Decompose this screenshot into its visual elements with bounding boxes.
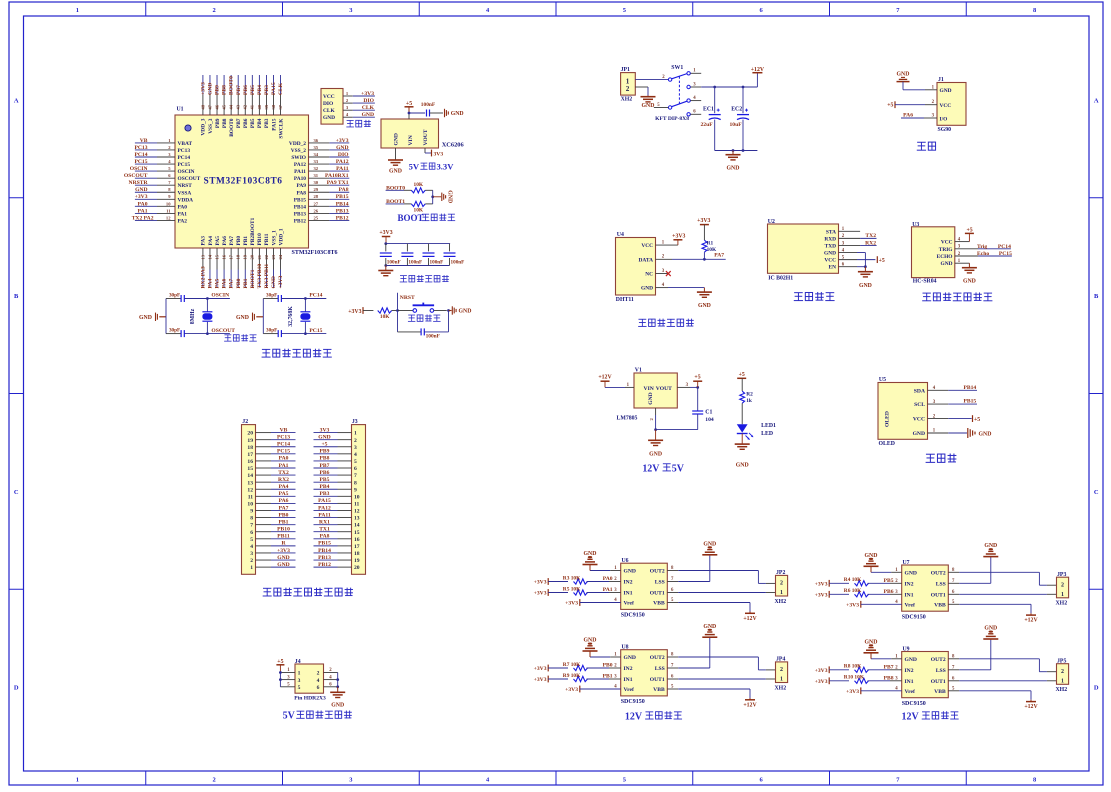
U1 bottom pin 15 PA5 net PA5 <box>214 236 220 289</box>
svg-text:PA5: PA5 <box>215 278 221 288</box>
capacitor C1 104 <box>692 387 714 429</box>
svg-text:+5: +5 <box>974 417 980 423</box>
svg-text:VDD_2: VDD_2 <box>289 141 306 147</box>
svg-text:PA8: PA8 <box>339 187 349 193</box>
svg-text:PA4: PA4 <box>208 236 214 246</box>
svg-text:40: 40 <box>257 104 262 109</box>
ground U8 LSS <box>702 624 717 638</box>
svg-text:PB7: PB7 <box>320 463 330 469</box>
svg-text:PB6: PB6 <box>320 470 330 476</box>
svg-text:3V3: 3V3 <box>434 152 444 158</box>
svg-text:30pF: 30pF <box>266 328 277 334</box>
svg-text:PC15: PC15 <box>277 449 290 455</box>
svg-text:5: 5 <box>354 459 357 465</box>
svg-text:PB15: PB15 <box>336 194 349 200</box>
svg-text:PB14: PB14 <box>336 201 349 207</box>
U1 left pin 11 PA1 wire/net PA1 <box>135 208 187 217</box>
svg-text:GND: GND <box>897 71 910 77</box>
U6 pin1 GND wire <box>590 570 621 572</box>
svg-text:10K: 10K <box>414 182 424 188</box>
svg-text:4: 4 <box>317 678 320 684</box>
net PA6 J1 pin3 <box>901 113 937 119</box>
svg-text:PC15: PC15 <box>178 162 191 168</box>
resistor R5 10K <box>563 586 621 595</box>
svg-text:PB13: PB13 <box>318 555 331 561</box>
caption temperature-humidity sensor <box>638 319 694 327</box>
svg-text:PC14: PC14 <box>998 244 1011 250</box>
power +12V U8 <box>743 698 757 708</box>
XC6206 GND pin to ground <box>388 148 403 175</box>
svg-text:GND: GND <box>336 145 348 151</box>
svg-text:20: 20 <box>250 254 255 259</box>
svg-text:RX2 PA3: RX2 PA3 <box>201 266 207 288</box>
svg-text:NRSTR: NRSTR <box>129 180 149 186</box>
svg-text:B: B <box>14 293 19 300</box>
svg-text:RX3 PB11: RX3 PB11 <box>264 264 270 289</box>
svg-text:+3V3: +3V3 <box>201 82 207 95</box>
svg-text:VBAT: VBAT <box>178 141 193 147</box>
svg-text:STA: STA <box>826 229 836 235</box>
svg-text:42: 42 <box>243 104 248 109</box>
svg-text:GND: GND <box>139 315 152 321</box>
svg-text:3V3: 3V3 <box>320 427 330 433</box>
svg-text:+3V3: +3V3 <box>565 687 578 693</box>
power +5 J4 <box>276 659 284 672</box>
power +12V to V1 <box>598 375 634 389</box>
svg-text:TX2: TX2 <box>278 470 289 476</box>
svg-text:PC15: PC15 <box>134 159 147 165</box>
svg-text:IN2: IN2 <box>905 668 914 674</box>
svg-text:PB6: PB6 <box>243 118 249 128</box>
svg-text:30pF: 30pF <box>169 293 180 299</box>
svg-text:PB8: PB8 <box>884 676 894 682</box>
svg-text:PB0: PB0 <box>236 236 242 246</box>
svg-text:1: 1 <box>1061 679 1064 685</box>
svg-text:TX2: TX2 <box>865 233 876 239</box>
svg-text:PA6: PA6 <box>222 236 228 246</box>
svg-text:5: 5 <box>298 685 301 691</box>
svg-text:+3V3: +3V3 <box>565 601 578 607</box>
svg-text:C: C <box>1094 489 1099 496</box>
svg-text:GND: GND <box>859 283 872 289</box>
svg-text:27: 27 <box>314 201 319 206</box>
svg-text:ECHO: ECHO <box>937 254 953 260</box>
svg-text:BOOT1: BOOT1 <box>250 269 256 288</box>
svg-text:IN1: IN1 <box>624 677 633 683</box>
svg-text:PB8: PB8 <box>320 456 330 462</box>
svg-text:PB15: PB15 <box>963 399 976 405</box>
caption display screen <box>926 454 957 463</box>
svg-text:GND: GND <box>624 569 636 575</box>
V1 pin2 GND wire <box>649 408 698 431</box>
svg-text:3: 3 <box>298 678 301 684</box>
svg-text:100nF: 100nF <box>451 259 465 265</box>
power +3V3 U6 IN1 <box>534 589 568 597</box>
svg-text:VBB: VBB <box>934 689 946 695</box>
U1 bottom pin 13 PA3 net RX2 PA3 <box>200 236 206 289</box>
resistor 10K reset <box>378 308 398 320</box>
svg-text:GND: GND <box>649 451 662 457</box>
svg-text:PB7: PB7 <box>884 665 894 671</box>
svg-text:2: 2 <box>250 558 253 564</box>
svg-text:37: 37 <box>278 104 283 109</box>
svg-text:6: 6 <box>354 466 357 472</box>
resistor R6 10K <box>844 588 902 597</box>
U5 pin2 VCC to +5 <box>928 415 981 423</box>
power +3V3 U6 Vref <box>565 599 621 607</box>
connector J1 SG90 servo <box>937 77 966 133</box>
svg-text:R1: R1 <box>707 240 714 246</box>
module U3 HC-SR04 <box>912 222 961 285</box>
regulator V1 LM7805 <box>617 368 678 422</box>
svg-text:PC13: PC13 <box>277 434 290 440</box>
svg-text:PA9 TX1: PA9 TX1 <box>327 180 349 186</box>
svg-text:PB5: PB5 <box>320 477 330 483</box>
svg-text:C: C <box>14 489 19 496</box>
svg-text:PB1: PB1 <box>243 236 249 246</box>
svg-text:D: D <box>14 685 19 692</box>
net label BOOT0 wire <box>386 185 412 191</box>
display U5 OLED <box>878 377 936 447</box>
svg-text:A: A <box>14 97 19 104</box>
U1 bottom pin 21 PB10 net TX3 PB10 <box>257 233 263 289</box>
power +3V3 filter caps <box>379 230 392 244</box>
svg-text:OUT2: OUT2 <box>650 655 665 661</box>
svg-text:1: 1 <box>780 590 783 596</box>
power +3V3 U8 Vref <box>565 686 621 694</box>
svg-text:PA15: PA15 <box>271 118 277 130</box>
svg-text:R2: R2 <box>746 391 753 397</box>
svg-text:U1: U1 <box>177 107 184 113</box>
svg-text:4: 4 <box>250 544 253 550</box>
power +3V3 pullup <box>697 218 710 240</box>
svg-text:GND: GND <box>941 261 953 267</box>
U1 top pin 40 PB4 net PB4 <box>257 75 263 128</box>
svg-text:PB15: PB15 <box>318 541 331 547</box>
U4 pin4 GND wire <box>656 283 705 288</box>
svg-text:18: 18 <box>354 551 360 557</box>
svg-text:OUT1: OUT1 <box>650 591 665 597</box>
svg-text:PB13: PB13 <box>336 208 349 214</box>
switch SW1 KFT DIP-8X8 <box>654 65 701 122</box>
svg-text:DHT11: DHT11 <box>616 297 634 303</box>
caption ultrasonic module <box>922 292 992 300</box>
svg-text:OUT2: OUT2 <box>931 570 946 576</box>
ground U6 pin1 <box>583 551 598 570</box>
svg-text:PB5: PB5 <box>250 118 256 128</box>
svg-text:12V: 12V <box>902 711 920 722</box>
svg-text:VIN: VIN <box>644 386 654 392</box>
U1 right pin 30 PA9 net PA9 TX1 <box>297 180 350 189</box>
svg-text:VBB: VBB <box>934 602 946 608</box>
svg-text:PB6: PB6 <box>243 85 249 95</box>
svg-text:+3V3: +3V3 <box>846 689 859 695</box>
svg-text:28: 28 <box>314 194 319 199</box>
svg-text:PC14: PC14 <box>309 293 322 299</box>
svg-text:LSS: LSS <box>655 666 665 672</box>
U1 right pin 33 PA12 net PA12 <box>294 159 349 168</box>
svg-text:+3V3: +3V3 <box>336 138 349 144</box>
svg-text:PA1: PA1 <box>138 208 148 214</box>
svg-text:LSS: LSS <box>655 580 665 586</box>
svg-text:DATA: DATA <box>639 257 654 263</box>
U8 pin8 OUT2 wire to JP4 <box>667 657 775 670</box>
svg-text:38: 38 <box>271 104 276 109</box>
svg-text:17: 17 <box>229 254 234 259</box>
svg-text:16: 16 <box>354 537 360 543</box>
svg-text:PB4: PB4 <box>320 484 330 490</box>
U1 right pin 25 PB12 net PB12 <box>294 215 350 224</box>
svg-text:PA1: PA1 <box>603 587 613 593</box>
svg-text:36: 36 <box>314 138 319 143</box>
caption MCU minimal system <box>262 349 332 357</box>
svg-text:PA7: PA7 <box>229 236 235 246</box>
U1 left pin 10 PA0 wire/net PA0 <box>135 201 187 210</box>
svg-text:OSCIN: OSCIN <box>211 293 229 299</box>
svg-text:PB5: PB5 <box>250 85 256 95</box>
resistor 10K BOOT1 <box>411 201 432 213</box>
svg-text:EC2: EC2 <box>731 107 742 113</box>
svg-text:PB0: PB0 <box>236 278 242 288</box>
svg-text:PB9: PB9 <box>215 85 221 95</box>
svg-text:PA2: PA2 <box>178 218 188 224</box>
svg-text:NC: NC <box>645 272 653 278</box>
svg-text:+5: +5 <box>694 375 700 381</box>
svg-text:PB4: PB4 <box>257 118 263 128</box>
svg-text:18: 18 <box>247 445 253 451</box>
svg-text:PB6: PB6 <box>884 589 894 595</box>
ground filter caps <box>378 266 393 276</box>
U2 pin2 RXD net TX2 <box>839 233 877 239</box>
svg-text:OLED: OLED <box>879 441 895 447</box>
svg-text:Trig: Trig <box>977 244 987 250</box>
svg-text:VOUT: VOUT <box>656 386 672 392</box>
svg-text:30pF: 30pF <box>169 328 180 334</box>
connector JP4 XH2 <box>775 657 788 692</box>
svg-text:VCC: VCC <box>913 417 925 423</box>
svg-text:1: 1 <box>298 671 301 677</box>
crystal circuit 32,768K <box>236 293 326 338</box>
svg-text:1: 1 <box>1061 592 1064 598</box>
svg-text:IN2: IN2 <box>624 580 633 586</box>
svg-text:VSS_3: VSS_3 <box>208 118 214 134</box>
svg-text:XH2: XH2 <box>775 599 787 605</box>
ground U8 pin1 <box>583 638 598 657</box>
svg-text:IN1: IN1 <box>624 591 633 597</box>
svg-text:PA6: PA6 <box>222 278 228 288</box>
svg-text:PA11: PA11 <box>336 166 349 172</box>
svg-text:2: 2 <box>213 776 216 783</box>
U8 pin1 GND wire <box>590 656 621 658</box>
svg-text:4: 4 <box>354 452 357 458</box>
svg-text:14: 14 <box>247 473 253 479</box>
wire JP1 pin2 to ground <box>635 87 648 96</box>
U1 right pin 31 PA10 net PA10RX1 <box>294 173 349 182</box>
driver U9 SDC9150 <box>895 646 955 707</box>
U9 pin1 GND wire <box>871 658 902 660</box>
caption BOOT setting circuit <box>397 213 455 223</box>
svg-text:12: 12 <box>354 509 360 515</box>
svg-text:GND: GND <box>451 111 464 117</box>
ground U9 LSS <box>983 626 998 640</box>
svg-text:PB5: PB5 <box>884 578 894 584</box>
svg-text:CLK: CLK <box>323 108 335 114</box>
svg-text:10K: 10K <box>707 247 717 253</box>
caption reset circuit <box>408 314 441 321</box>
svg-text:BOOT0: BOOT0 <box>229 76 235 95</box>
svg-text:VDD_1: VDD_1 <box>278 228 284 245</box>
svg-text:NRST: NRST <box>400 295 415 301</box>
svg-text:IN1: IN1 <box>905 679 914 685</box>
svg-text:21: 21 <box>257 254 262 259</box>
U5 pin3 SCL net PB15 <box>928 399 978 405</box>
svg-text:10K: 10K <box>380 314 390 320</box>
svg-text:TX3 PB10: TX3 PB10 <box>257 264 263 289</box>
svg-text:100nF: 100nF <box>426 333 441 339</box>
power +3V3 U9 IN2 <box>815 666 849 674</box>
U1 left pin 3 PC14 wire/net PC14 <box>134 152 190 161</box>
svg-text:SWIO: SWIO <box>291 155 306 161</box>
svg-text:+3V3: +3V3 <box>846 603 859 609</box>
svg-text:GND: GND <box>277 555 289 561</box>
svg-text:LSS: LSS <box>936 668 946 674</box>
svg-text:R5 10K: R5 10K <box>563 586 581 592</box>
svg-text:VDD_3: VDD_3 <box>201 118 207 135</box>
svg-text:Echo: Echo <box>977 251 989 257</box>
svg-text:5: 5 <box>250 537 253 543</box>
svg-text:BOOT: BOOT <box>397 213 423 223</box>
resistor R3 10K <box>563 575 621 584</box>
caption 12V DC motor right <box>902 711 959 722</box>
U8 pin5 VBB wire to +12V <box>667 689 750 698</box>
capacitor 100nF reset loop <box>398 311 449 340</box>
svg-text:LED: LED <box>761 431 773 437</box>
svg-text:1: 1 <box>354 431 357 437</box>
svg-text:PC15: PC15 <box>999 251 1012 257</box>
U1 top pin 47 VSS_3 net GND <box>207 75 213 134</box>
svg-text:10: 10 <box>166 201 171 206</box>
svg-text:15: 15 <box>247 466 253 472</box>
caption chip filter capacitors <box>400 275 449 282</box>
svg-text:PA10: PA10 <box>294 176 306 182</box>
svg-text:GND: GND <box>277 562 289 568</box>
svg-text:VCC: VCC <box>940 103 952 109</box>
power +5 LED <box>737 372 746 391</box>
capacitor 100nF at XC6206 <box>408 102 443 117</box>
svg-text:2: 2 <box>780 667 783 673</box>
capacitor EC2 10uF <box>730 87 750 151</box>
svg-text:11: 11 <box>166 208 171 213</box>
svg-text:RX2: RX2 <box>278 477 289 483</box>
svg-text:2: 2 <box>1061 583 1064 589</box>
svg-text:PB12: PB12 <box>318 562 331 568</box>
svg-text:OSCIN: OSCIN <box>130 166 148 172</box>
svg-text:OSCIN: OSCIN <box>178 169 195 175</box>
svg-text:+12V: +12V <box>1024 618 1038 624</box>
svg-text:GND: GND <box>984 543 997 549</box>
svg-text:IN2: IN2 <box>905 581 914 587</box>
svg-text:PB7: PB7 <box>236 85 242 95</box>
svg-text:EN: EN <box>829 265 837 271</box>
svg-text:PA0: PA0 <box>603 576 613 582</box>
svg-text:GND: GND <box>331 702 344 708</box>
svg-text:TX1: TX1 <box>319 527 330 533</box>
net NRST stub <box>396 293 415 312</box>
U7 pin8 OUT2 wire to JP3 <box>948 572 1056 585</box>
U6 pin8 OUT2 wire to JP2 <box>667 571 775 584</box>
ground reset right <box>447 306 471 314</box>
svg-text:30: 30 <box>314 180 319 185</box>
svg-text:+3V3: +3V3 <box>534 666 547 672</box>
U1 top pin 43 PB7 net PB7 <box>236 75 242 128</box>
svg-text:DIO: DIO <box>323 101 333 107</box>
svg-text:100nF: 100nF <box>408 259 422 265</box>
svg-text:22: 22 <box>264 254 269 259</box>
svg-text:PA7: PA7 <box>229 278 235 288</box>
svg-text:EC1: EC1 <box>703 107 714 113</box>
svg-text:CLK: CLK <box>278 82 284 95</box>
svg-text:5V: 5V <box>409 162 420 172</box>
caption download-port <box>346 120 371 127</box>
svg-text:GND: GND <box>624 655 636 661</box>
svg-text:PB2BOOT1: PB2BOOT1 <box>250 217 256 245</box>
svg-text:+5: +5 <box>879 258 885 264</box>
svg-text:PA5: PA5 <box>279 491 289 497</box>
svg-text:PC13: PC13 <box>134 145 147 151</box>
svg-text:GND: GND <box>913 431 925 437</box>
svg-text:PB1: PB1 <box>603 674 613 680</box>
svg-text:+3V3: +3V3 <box>672 233 685 239</box>
U1 bottom pin 19 PB1 net PB1 <box>243 236 249 289</box>
svg-text:VCC: VCC <box>941 240 953 246</box>
svg-text:PA8: PA8 <box>320 534 330 540</box>
U1 right pin 32 PA11 net PA11 <box>294 166 349 175</box>
svg-text:PC14: PC14 <box>178 155 191 161</box>
wire J4 right bus <box>336 673 339 689</box>
svg-text:GND: GND <box>446 190 452 203</box>
svg-text:R8 10K: R8 10K <box>844 664 862 670</box>
U1 right pin 29 PA8 net PA8 <box>297 187 350 196</box>
U6 pin6 OUT1 wire to JP2 <box>667 592 775 594</box>
ground U9 pin1 <box>864 639 879 658</box>
svg-text:NRST: NRST <box>178 183 193 189</box>
svg-text:VCC: VCC <box>641 243 653 249</box>
U3 pin1 GND <box>955 262 970 264</box>
svg-text:PB12: PB12 <box>336 215 349 221</box>
module U2 bluetooth IC B02H1 <box>768 219 845 282</box>
svg-text:DIO: DIO <box>363 98 374 104</box>
svg-text:I/O: I/O <box>940 116 948 122</box>
U3 pin2 ECHO net PC15 <box>955 251 1012 257</box>
U5 pin1 GND <box>928 428 992 438</box>
svg-text:HC-SR04: HC-SR04 <box>913 279 937 285</box>
svg-text:CLK: CLK <box>362 105 375 111</box>
svg-text:1: 1 <box>76 776 79 783</box>
diode LED1 <box>737 423 776 440</box>
U1 right pin 34 SWIO net DIO <box>291 152 349 161</box>
connector JP3 XH2 <box>1056 572 1069 607</box>
resistor R9 10K <box>563 673 621 682</box>
svg-text:PB7: PB7 <box>236 118 242 128</box>
svg-text:VSS_2: VSS_2 <box>291 148 307 154</box>
U1 top pin 46 PB9 net PB9 <box>214 75 220 128</box>
svg-text:RX1: RX1 <box>319 519 330 525</box>
svg-text:Vref: Vref <box>905 602 915 608</box>
svg-text:GND: GND <box>648 392 654 404</box>
svg-text:+3V3: +3V3 <box>534 677 547 683</box>
resistor R4 10K <box>844 577 902 586</box>
wire J4 left bus <box>279 671 282 687</box>
